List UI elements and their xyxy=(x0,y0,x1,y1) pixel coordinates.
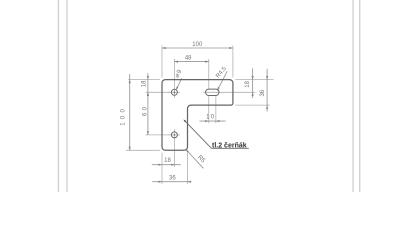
arrows 18 right: outside xyxy=(252,76,254,80)
ext top-left corner to left xyxy=(128,79,160,81)
arrows 60: inside xyxy=(147,92,149,96)
leader dia9 xyxy=(176,78,182,90)
arrows 48: inside xyxy=(174,61,178,63)
arrows 18 left: outside xyxy=(147,76,149,80)
svg-text:48: 48 xyxy=(185,56,192,62)
svg-text:⌀9: ⌀9 xyxy=(174,68,184,79)
hole2 bottom circle xyxy=(171,132,177,138)
sheet border line right outer xyxy=(359,0,360,192)
hole1 center dot xyxy=(174,92,176,94)
dimension texts xyxy=(120,42,266,181)
ext hole2 center to left xyxy=(146,134,170,136)
ext slot left arc center down (10 dim) xyxy=(208,96,210,123)
arrow R4.5 leader at slot xyxy=(217,87,219,90)
ext leg bottom-left corner down xyxy=(161,153,163,184)
dimension lines xyxy=(130,48,267,182)
dim line 18 bottom xyxy=(152,164,181,166)
slot obround xyxy=(206,89,220,95)
arrow R5 leader at corner xyxy=(186,150,189,153)
svg-text:60: 60 xyxy=(142,105,148,116)
svg-text:tl.2 čerňák: tl.2 čerňák xyxy=(212,142,247,149)
dim line 48 xyxy=(174,61,208,63)
svg-text:36: 36 xyxy=(260,89,266,96)
hole2 center dot xyxy=(174,134,176,136)
leader tl.2 note xyxy=(184,120,249,148)
ext bar bottom-right corner to right xyxy=(235,104,269,106)
leader R5 xyxy=(186,150,204,169)
dim line 100 left xyxy=(129,74,131,150)
arrows 36 bottom: outside xyxy=(158,181,162,183)
dim line 36 bottom xyxy=(152,181,190,183)
dim line 36 right xyxy=(266,69,268,112)
ext hole2 down (18 bottom dim) xyxy=(173,140,175,167)
centerline slot xyxy=(203,91,221,93)
sheet border line right inner xyxy=(352,0,353,192)
svg-text:18: 18 xyxy=(142,80,148,87)
svg-text:R5: R5 xyxy=(196,155,206,165)
part outline xyxy=(162,80,233,151)
ext slot left arc center up (48 dim) xyxy=(208,59,210,89)
ext slot right end to right xyxy=(221,91,255,93)
centermark hole2 xyxy=(169,134,180,136)
svg-text:18: 18 xyxy=(245,80,251,87)
svg-text:100: 100 xyxy=(192,42,203,48)
arrow dia9 leader at hole xyxy=(176,87,178,90)
centermark hole1 xyxy=(169,91,180,93)
svg-text:10: 10 xyxy=(206,115,215,121)
extension lines and centerlines xyxy=(126,45,274,184)
sheet border line left outer xyxy=(58,0,59,192)
arrows 100 top: inside xyxy=(162,47,166,49)
ext hole1 up (48 dim) xyxy=(173,59,175,87)
svg-text:36: 36 xyxy=(169,175,176,181)
ext bottom-left corner to left xyxy=(126,149,160,151)
arrows 100 left: inside xyxy=(129,80,131,84)
ext part left edge up (100 top dim) xyxy=(161,45,163,77)
ext slot right arc center down (10 dim) xyxy=(215,96,217,123)
ext leg bottom-right corner down (36 dim) xyxy=(187,153,189,184)
dim line 18 left (outside arrows, overshoot) xyxy=(147,73,149,92)
hole1 top-left circle xyxy=(171,89,177,95)
ext part right edge up (100 top dim) xyxy=(232,45,234,77)
ext top-right corner to right xyxy=(235,78,273,80)
arrows 18 bottom: outside xyxy=(158,164,162,166)
dim line 60 left xyxy=(147,92,149,135)
svg-text:18: 18 xyxy=(164,158,171,164)
dim line 18 right xyxy=(252,68,254,98)
dim line 100 top xyxy=(162,47,233,49)
ext hole1 center to left xyxy=(146,91,170,93)
arrow tl.2 leader xyxy=(183,119,186,122)
leader R4.5 xyxy=(217,71,227,90)
sheet border line left inner xyxy=(66,0,67,192)
arrows 10: outside xyxy=(205,120,209,122)
svg-text:100: 100 xyxy=(120,106,126,126)
arrows 36 right: outside xyxy=(266,76,268,80)
arrowheads xyxy=(129,47,269,183)
dim line 10 xyxy=(199,120,225,122)
